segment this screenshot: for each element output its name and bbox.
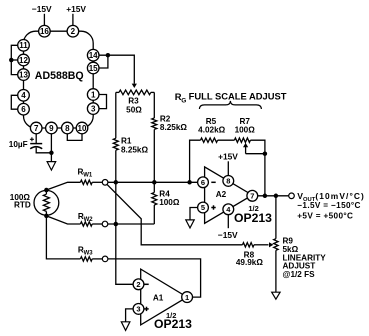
RTD label RTD <box>14 201 31 210</box>
A1 label OP213 <box>154 317 192 331</box>
wire RW1 to terminal <box>92 181 102 183</box>
svg-text:−15V: −15V <box>218 230 238 240</box>
U1 pin 14 <box>87 49 99 61</box>
svg-text:W1: W1 <box>83 173 93 179</box>
svg-text:@1/2 FS: @1/2 FS <box>283 270 316 279</box>
wire strap pins 4-6 <box>11 95 17 109</box>
wire pin16 to -15V <box>43 14 45 26</box>
wire RTD bottom to RW2 <box>46 216 80 224</box>
op-amp A1 body <box>141 269 187 325</box>
R3 value 50ohm <box>126 105 142 114</box>
wire RTD bottom to RW3 <box>46 216 80 259</box>
resistor R1 <box>113 138 118 150</box>
svg-text:RTD: RTD <box>14 201 31 210</box>
wire pin7 to C1 <box>35 134 37 143</box>
svg-text:R3: R3 <box>128 96 139 105</box>
RTD 100ohm sensor <box>34 190 59 216</box>
wire R1 to A1 pin2 <box>116 150 134 284</box>
A1 plus sign <box>144 307 148 311</box>
svg-text:1: 1 <box>91 90 96 99</box>
wire C1 to ground node <box>36 148 51 153</box>
svg-text:2: 2 <box>71 27 76 36</box>
R4 label <box>159 189 170 198</box>
R2 label <box>160 115 171 124</box>
A2 -15V wire <box>227 215 229 228</box>
wire R3 to R1 <box>115 92 117 138</box>
wire strap pins 14-15 <box>99 55 108 68</box>
U1 pin 1 <box>87 89 99 101</box>
wire RW3 to terminal <box>92 258 102 260</box>
svg-text:W3: W3 <box>84 251 94 257</box>
svg-text:5: 5 <box>201 203 205 212</box>
wire R9 to ground <box>275 250 277 292</box>
R1 value <box>121 146 148 155</box>
R2 value <box>160 123 187 132</box>
junction R1/RW1 <box>114 180 119 185</box>
svg-text:16: 16 <box>40 27 49 36</box>
terminal RW2 <box>102 221 108 227</box>
svg-text:3: 3 <box>91 104 96 113</box>
resistor RW3 <box>80 257 92 261</box>
svg-text:11: 11 <box>19 41 28 50</box>
svg-text:9: 9 <box>49 124 54 133</box>
U1 pin 10 <box>76 122 88 134</box>
potentiometer R9 <box>274 239 278 251</box>
wire pin14 node to R3 wiper <box>108 55 134 83</box>
wire R3 right lead <box>151 91 155 93</box>
A2 pin 8 <box>223 176 234 187</box>
svg-text:10: 10 <box>78 124 87 133</box>
junction R2/R4 <box>152 180 157 185</box>
svg-text:8.25kΩ: 8.25kΩ <box>121 146 148 155</box>
potentiometer R3 <box>119 90 151 95</box>
wire strap pins 8-10 <box>67 134 82 141</box>
resistor R8 <box>243 243 255 247</box>
U1 pin 6 <box>18 103 30 115</box>
svg-text:(10mV/°C): (10mV/°C) <box>315 191 365 201</box>
A1 pin3 ground wire <box>126 309 134 322</box>
svg-text:8: 8 <box>65 124 70 133</box>
wire R4 to RW2 row <box>153 205 155 224</box>
svg-text:G: G <box>181 97 186 104</box>
R3 label <box>128 96 139 105</box>
R4 value <box>159 198 180 207</box>
label FULL SCALE ADJUST <box>189 91 287 102</box>
A2 pin 6 <box>198 177 209 188</box>
R5 value <box>198 125 225 134</box>
wire R5 to R7 <box>218 139 235 141</box>
R7 value <box>235 125 256 134</box>
U1 pin 7 <box>30 122 42 134</box>
U1 pin 3 <box>87 103 99 115</box>
svg-text:6: 6 <box>201 178 205 187</box>
A2 pin 4 <box>223 204 234 215</box>
junction RTD bottom <box>44 214 49 219</box>
U1 pin 4 <box>18 90 30 102</box>
RTD label 100ohm <box>10 193 31 202</box>
A1 label 1/2 <box>166 311 176 320</box>
VOUT note line3 <box>297 212 353 221</box>
svg-text:10µF: 10µF <box>9 140 28 149</box>
svg-text:OP213: OP213 <box>234 211 272 225</box>
R8 label <box>244 250 255 259</box>
junction R5 branch <box>187 180 192 185</box>
svg-text:−15V: −15V <box>32 4 52 14</box>
wire node to R5 <box>190 140 201 182</box>
svg-text:R1: R1 <box>121 136 132 145</box>
svg-text:1: 1 <box>185 293 189 302</box>
resistor R4 <box>152 193 157 206</box>
R5 label <box>206 117 217 126</box>
resistor R5 <box>201 138 218 142</box>
U1 pin 13 <box>18 69 30 81</box>
terminal RW1 <box>102 180 108 186</box>
net +15V label <box>66 4 86 14</box>
ground A1 pin3 <box>121 322 130 331</box>
junction C1/pin9 <box>49 151 54 156</box>
wire R7 to output node <box>250 140 265 196</box>
A1 minus sign <box>144 283 148 285</box>
svg-text:49.9kΩ: 49.9kΩ <box>236 258 263 267</box>
junction pins 11-12-13 strap <box>9 58 14 63</box>
svg-text:8: 8 <box>226 177 230 186</box>
R7 wiper arrowhead <box>243 143 248 147</box>
resistor R2 <box>152 118 157 129</box>
label half FS <box>283 270 316 279</box>
A1 pin 1 <box>182 292 193 303</box>
wire output to R9 <box>275 196 277 239</box>
svg-text:OP213: OP213 <box>154 317 192 331</box>
junction output/R9 <box>274 194 279 199</box>
RW3 label <box>78 246 93 257</box>
svg-text:7: 7 <box>250 192 254 201</box>
svg-text:−1.5V = −150°C: −1.5V = −150°C <box>297 201 360 210</box>
resistor RW1 <box>80 180 92 184</box>
svg-text:15: 15 <box>89 64 98 73</box>
A1 pin 2 <box>133 279 144 290</box>
wire pin9 down <box>50 134 52 162</box>
terminal VOUT <box>289 193 295 199</box>
wire RW3 terminal to A1 output loop <box>108 259 201 297</box>
svg-text:13: 13 <box>19 70 28 79</box>
R7 wiper <box>246 145 265 154</box>
A2 minus sign <box>211 181 215 183</box>
RW1 label <box>78 168 93 179</box>
wire R3 left lead <box>116 91 119 93</box>
brace RG full scale adjust <box>199 101 261 109</box>
R8 value <box>236 258 263 267</box>
wire R3 to R2 <box>153 92 155 118</box>
resistor RW2 <box>80 222 92 226</box>
wire R8 to R9 wiper <box>254 244 269 246</box>
svg-text:W2: W2 <box>84 217 94 223</box>
wire RW2 to terminal <box>92 223 102 225</box>
wire RW2 terminal to R4 <box>108 223 155 225</box>
net -15V label <box>32 4 52 14</box>
R9 wiper arrowhead <box>269 242 273 247</box>
junction RTD top <box>44 188 49 193</box>
net -15V label A2 <box>218 230 238 240</box>
svg-text:2: 2 <box>136 280 140 289</box>
VOUT label <box>297 191 365 203</box>
ground A2 pin5 <box>186 220 194 228</box>
svg-text:AD588BQ: AD588BQ <box>35 70 84 82</box>
wire A2 output <box>258 195 289 197</box>
svg-text:8.25kΩ: 8.25kΩ <box>160 123 187 132</box>
wire main node row <box>108 181 198 183</box>
A2 plus sign <box>211 205 215 209</box>
svg-text:FULL SCALE ADJUST: FULL SCALE ADJUST <box>189 91 287 102</box>
svg-text:50Ω: 50Ω <box>126 105 142 114</box>
terminal RW3 <box>102 256 108 262</box>
svg-text:+5V = +500°C: +5V = +500°C <box>297 212 353 221</box>
capacitor C1 10uF <box>30 137 42 149</box>
U1 pin 16 <box>39 25 51 37</box>
wire R2 to node <box>153 129 155 192</box>
R9 label <box>283 237 294 246</box>
ground under R9 <box>272 292 280 299</box>
A1 pin 3 <box>133 304 144 315</box>
U1 pin 12 <box>18 54 30 66</box>
A2 pin5 ground wire <box>190 208 198 220</box>
A2 label <box>216 190 227 199</box>
A2 label 1/2 <box>248 204 258 213</box>
svg-text:100Ω: 100Ω <box>159 198 180 207</box>
IC U1 AD588BQ outline <box>24 31 94 128</box>
ground under pin9 <box>47 162 56 171</box>
svg-text:+15V: +15V <box>66 4 86 14</box>
svg-text:A1: A1 <box>153 294 164 303</box>
U1 pin 9 <box>46 122 58 134</box>
C1 value 10uF <box>9 140 28 149</box>
R1 label <box>121 136 132 145</box>
R3 wiper arrowhead <box>132 84 137 88</box>
svg-text:+15V: +15V <box>218 152 238 162</box>
A2 pin 5 <box>198 202 209 213</box>
A1 label <box>153 294 164 303</box>
svg-text:14: 14 <box>89 51 98 60</box>
U1 pin 15 <box>87 62 99 74</box>
label LINEARITY <box>283 253 327 262</box>
A2 pin 7 <box>247 190 258 201</box>
svg-text:3: 3 <box>136 305 140 314</box>
wire pin2 to +15V <box>72 14 74 26</box>
RW2 label <box>78 212 93 223</box>
A2 label OP213 <box>234 211 272 225</box>
RG label <box>175 91 186 104</box>
svg-text:12: 12 <box>19 56 28 65</box>
svg-text:100Ω: 100Ω <box>235 125 256 134</box>
wire RTD top to RW1 <box>46 182 80 190</box>
R9 value <box>283 245 299 254</box>
svg-text:R4: R4 <box>159 189 170 198</box>
label ADJUST <box>283 262 316 271</box>
svg-text:7: 7 <box>34 124 39 133</box>
svg-text:6: 6 <box>21 105 26 114</box>
U1 pin 11 <box>18 40 30 52</box>
R7 label <box>239 117 250 126</box>
U1 label AD588BQ <box>35 70 84 82</box>
junction output/R7 <box>263 194 268 199</box>
wire RW1 terminal to R8 row <box>107 184 243 245</box>
junction RW2/A1 line <box>114 222 119 227</box>
wire strap pins 1-3 <box>99 95 107 109</box>
potentiometer R7 <box>234 138 250 142</box>
junction pin14 node <box>106 53 111 58</box>
svg-text:4: 4 <box>21 91 26 100</box>
VOUT note line2 <box>297 201 360 210</box>
net +15V label A2 <box>218 152 238 162</box>
A2 +15V wire <box>227 161 229 175</box>
op-amp A2 body <box>205 167 253 223</box>
svg-text:4.02kΩ: 4.02kΩ <box>198 125 225 134</box>
wire strap pins 11-12-13 <box>11 45 17 74</box>
svg-text:A2: A2 <box>216 190 227 199</box>
junction R7 wiper <box>263 151 268 156</box>
U1 pin 2 <box>67 25 79 37</box>
U1 pin 8 <box>62 122 74 134</box>
